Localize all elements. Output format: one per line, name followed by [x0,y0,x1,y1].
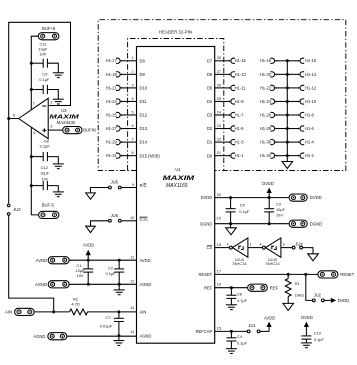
svg-text:H1-2: H1-2 [305,153,315,158]
svg-text:REFCAP: REFCAP [196,329,213,334]
svg-text:AIN: AIN [140,310,147,315]
svg-text:HEADER 32-PIN: HEADER 32-PIN [159,30,192,35]
wire U3 pin3 to BUFIN [48,129,63,131]
svg-text:H1-23: H1-23 [106,99,118,104]
svg-text:2: 2 [132,70,134,74]
svg-text:H1-29: H1-29 [106,140,118,145]
svg-text:AIN: AIN [5,310,12,315]
ground C12 [53,191,64,193]
svg-text:4: 4 [260,243,262,247]
svg-text:26: 26 [217,83,221,87]
wire feedback loop op-amp U3 output to IN- [9,22,71,118]
wire header ground bus [286,61,288,162]
svg-text:10V: 10V [41,177,48,182]
svg-text:27: 27 [217,70,221,74]
wire AIN to R2 [34,311,69,313]
svg-text:10µF: 10µF [276,207,286,212]
svg-text:21: 21 [217,151,221,155]
pad BUFIN [63,127,82,134]
svg-text:0.1µF: 0.1µF [39,77,50,82]
ground AGND pin 14 [118,336,120,340]
svg-text:C3: C3 [276,201,281,206]
svg-text:MAXIM: MAXIM [163,175,196,182]
svg-text:H1-14: H1-14 [305,72,317,77]
svg-text:H1-20: H1-20 [260,72,272,77]
svg-text:H1-3: H1-3 [235,140,245,145]
svg-text:JU2: JU2 [314,293,322,298]
svg-text:H1-24: H1-24 [260,99,272,104]
svg-text:H1-27: H1-27 [106,126,118,131]
pad REF [248,284,268,291]
svg-text:H1-7: H1-7 [235,112,245,117]
svg-text:C12: C12 [41,165,48,170]
svg-text:5: 5 [132,110,134,114]
svg-text:AGND: AGND [35,282,47,287]
node C12 junction [30,184,33,187]
svg-text:AVDD: AVDD [36,258,47,263]
svg-text:H1-10: H1-10 [305,99,317,104]
ground C8 [53,163,64,165]
ground C11 [53,72,64,74]
svg-text:REF: REF [270,285,279,290]
svg-text:D1: D1 [207,140,213,145]
svg-text:D3: D3 [207,113,213,118]
svg-text:C2: C2 [108,266,113,271]
svg-text:0.01µF: 0.01µF [100,323,113,328]
svg-text:10: 10 [130,216,134,220]
power DVDD arrow right [331,298,336,303]
wire AGND pin 12 [69,283,136,285]
svg-text:JU6: JU6 [111,213,119,218]
svg-text:JU1: JU1 [248,323,256,328]
pad RESET [318,271,338,278]
svg-text:24: 24 [217,110,221,114]
svg-text:H1-17: H1-17 [106,58,118,63]
svg-text:BUFIN: BUFIN [83,128,96,133]
svg-text:2: 2 [227,243,229,247]
svg-text:16: 16 [217,283,221,287]
svg-text:0.1µF: 0.1µF [314,337,325,342]
svg-text:D8: D8 [140,58,146,63]
wire U2-A to U2-B [248,247,262,249]
ground C10 [301,342,312,344]
svg-text:H1-8: H1-8 [305,112,315,117]
svg-text:H1-21: H1-21 [106,85,118,90]
svg-text:U1: U1 [175,167,181,172]
svg-text:0.1µF: 0.1µF [237,341,248,346]
svg-text:DVDD: DVDD [301,315,313,320]
svg-text:14: 14 [130,330,134,334]
svg-text:D15 (MSB): D15 (MSB) [140,153,161,158]
svg-text:4: 4 [132,97,134,101]
inverter U2-B 74HC14 [262,246,265,249]
svg-text:3: 3 [50,125,52,129]
svg-text:0.1µF: 0.1µF [105,271,116,276]
ground C2 [118,284,120,290]
pad DVDD [289,194,307,201]
op-amp U3 MAX4430 [19,98,49,138]
svg-text:C4: C4 [237,334,243,339]
ground JU4 [308,254,319,261]
svg-text:10V: 10V [276,213,283,218]
svg-text:8: 8 [132,151,134,155]
jumper JU2 to DVDD [306,274,313,300]
svg-text:MAX4430: MAX4430 [57,120,76,125]
wire AVDD pin 11 [69,259,136,261]
svg-text:19: 19 [217,216,221,220]
header H1 inner dashed boundary [128,39,224,171]
svg-text:0.1µF: 0.1µF [40,144,51,149]
ground C9 [53,98,64,100]
svg-text:D5: D5 [207,86,213,91]
svg-text:D14: D14 [140,140,148,145]
svg-text:22: 22 [217,138,221,142]
svg-text:H1-6: H1-6 [305,126,315,131]
svg-text:MAX1165: MAX1165 [166,183,188,189]
header H1 outer dashed boundary [98,20,346,171]
svg-text:D6: D6 [207,72,213,77]
ground C4 [226,348,237,350]
op-amp U1 chip body MAX1165 [137,47,215,344]
svg-text:H1-26: H1-26 [260,112,272,117]
svg-text:RESET: RESET [199,272,213,277]
node C9 junction [30,88,33,91]
jumper JU3 [7,204,10,207]
ground JU6 [86,226,96,232]
svg-text:H1-11: H1-11 [235,85,247,90]
svg-text:1: 1 [132,56,134,60]
svg-text:H1-19: H1-19 [106,72,118,77]
svg-text:10V: 10V [39,52,46,57]
svg-text:4: 4 [33,131,35,135]
svg-text:3: 3 [132,83,134,87]
ground DGND [230,224,232,228]
svg-text:28: 28 [217,56,221,60]
svg-text:H1-25: H1-25 [106,112,118,117]
svg-text:C6: C6 [237,292,242,297]
svg-text:D4: D4 [207,99,213,104]
svg-text:REF: REF [204,285,213,290]
node C11 junction [30,62,33,65]
svg-text:JU4: JU4 [295,241,303,246]
svg-text:4.7Ω: 4.7Ω [71,302,79,307]
svg-text:D12: D12 [140,113,148,118]
svg-text:D0: D0 [207,153,213,158]
svg-text:H1-32: H1-32 [260,153,272,158]
svg-text:4.7µF: 4.7µF [237,298,248,303]
svg-text:DVDD: DVDD [262,181,274,186]
svg-text:13: 13 [130,306,134,310]
svg-text:25: 25 [217,97,221,101]
svg-text:7: 7 [33,102,35,106]
svg-text:D11: D11 [140,99,148,104]
svg-text:AVDD: AVDD [83,242,94,247]
svg-text:10V: 10V [77,273,84,278]
ground R1 [283,303,294,310]
svg-text:R1: R1 [295,281,300,286]
svg-text:H1-15: H1-15 [235,58,247,63]
svg-text:DVDD: DVDD [310,195,322,200]
svg-text:3: 3 [283,243,285,247]
svg-text:DVDD: DVDD [201,195,213,200]
svg-text:JU5: JU5 [111,179,119,184]
node C8 junction [30,155,33,158]
svg-text:H1-9: H1-9 [235,99,245,104]
svg-text:AGND: AGND [140,282,152,287]
svg-text:H1-5: H1-5 [235,126,245,131]
svg-text:BUF+5: BUF+5 [42,26,56,31]
svg-text:11: 11 [130,256,134,260]
svg-text:10µF: 10µF [40,171,50,176]
pad DGND [289,220,307,227]
svg-text:74HC14: 74HC14 [265,261,280,266]
wire U3 output [9,118,19,120]
svg-text:RESET: RESET [340,272,354,277]
svg-text:D9: D9 [140,72,146,77]
svg-text:U3: U3 [61,108,67,113]
svg-text:C9: C9 [42,72,47,77]
svg-text:6: 6 [13,114,15,118]
svg-text:H1-28: H1-28 [260,126,272,131]
svg-text:7: 7 [132,138,134,142]
svg-text:R2: R2 [73,296,78,301]
svg-text:9: 9 [132,183,134,187]
ground header bus [282,162,293,169]
svg-text:23: 23 [217,124,221,128]
svg-text:DGND: DGND [200,221,212,226]
svg-text:C5: C5 [240,203,245,208]
svg-text:1: 1 [250,243,252,247]
svg-text:2: 2 [50,101,52,105]
svg-text:DGND: DGND [310,221,322,226]
svg-text:C10: C10 [314,331,322,336]
svg-text:D7: D7 [207,58,213,63]
node op-amp output junction [7,117,10,120]
svg-text:12: 12 [130,280,134,284]
svg-text:17: 17 [217,269,221,273]
wire U2-B to JU4 [281,247,292,249]
svg-text:H1-12: H1-12 [305,85,317,90]
wire BUF+5 to V+ rail [31,36,38,110]
svg-text:6: 6 [132,124,134,128]
svg-text:H1-31: H1-31 [106,153,118,158]
svg-text:H1-4: H1-4 [305,140,315,145]
wire left rail down to JU3 [8,119,10,204]
svg-text:H1-30: H1-30 [260,140,272,145]
wire AGND pin 14 [67,335,137,336]
svg-text:BUF-5: BUF-5 [42,202,55,207]
svg-text:H1-22: H1-22 [260,85,272,90]
ground C6 [226,304,237,306]
svg-text:0.1µF: 0.1µF [239,209,250,214]
wire U3 pin4 V- rail [31,127,38,215]
svg-text:H1-13: H1-13 [235,72,247,77]
wire R2 to U1 pin 13 [88,311,137,313]
svg-text:15: 15 [217,326,221,330]
svg-text:AVDD: AVDD [264,316,275,321]
svg-text:DVDD: DVDD [338,298,350,303]
svg-text:AVDD: AVDD [140,258,151,263]
svg-text:18: 18 [217,243,221,247]
svg-text:D10: D10 [140,86,148,91]
wire JU4 to ground [303,248,314,254]
inverter U2-A 74HC14 [229,246,232,249]
svg-text:D2: D2 [207,126,213,131]
svg-text:D13: D13 [140,126,148,131]
svg-text:74HC14: 74HC14 [232,261,247,266]
svg-text:JU3: JU3 [13,207,21,212]
wire JU3 to AIN net [9,215,54,312]
svg-text:10kΩ: 10kΩ [295,293,304,298]
svg-text:AGND: AGND [140,333,152,338]
svg-text:H1-18: H1-18 [260,58,272,63]
svg-text:H1-1: H1-1 [235,153,245,158]
svg-text:C7: C7 [106,315,111,320]
svg-text:AGND: AGND [33,334,45,339]
ground JU5 [86,193,96,199]
svg-text:20: 20 [217,193,221,197]
svg-text:H1-16: H1-16 [305,58,317,63]
